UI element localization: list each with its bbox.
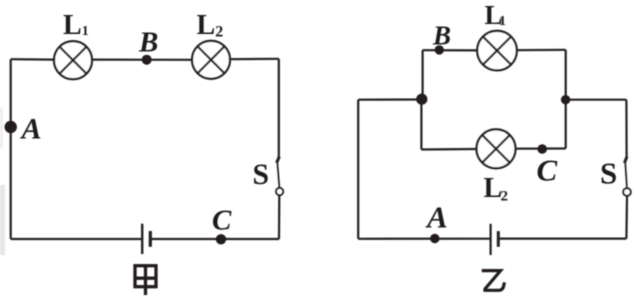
label 乙 (right circuit caption) — [482, 271, 505, 291]
battery (left circuit): short thick plate — [149, 231, 152, 247]
node B (left circuit) — [142, 55, 152, 65]
switch S (right circuit): lever — [625, 162, 627, 188]
wire left-circuit top segment L1 to L2 — [92, 58, 193, 60]
battery (left circuit): long plate — [141, 224, 143, 254]
wire right-circuit parallel left vertical upper — [422, 50, 424, 99]
wire right-circuit bottom branch left: corner to L2 — [421, 148, 477, 151]
switch S (left circuit): fixed contact tick — [277, 157, 280, 164]
svg-text:B: B — [138, 26, 158, 58]
switch S (right circuit): fixed contact tick — [624, 157, 627, 164]
wire left-circuit right vertical below switch — [278, 195, 280, 239]
wire left-circuit right vertical above switch — [278, 59, 280, 158]
wire right-circuit parallel right vertical upper — [565, 50, 567, 100]
lamp L1 (left circuit) — [54, 41, 92, 79]
wire right-circuit outer left vertical — [357, 100, 359, 239]
node C (left circuit) — [216, 234, 226, 244]
label 甲 (left circuit caption) — [135, 266, 156, 295]
svg-text:A: A — [20, 113, 42, 146]
node junction right (right circuit) — [561, 95, 570, 104]
node B (right circuit) — [435, 45, 444, 54]
svg-text:2: 2 — [215, 24, 223, 41]
node junction left (right circuit) — [416, 94, 427, 105]
wire right-circuit top branch right: L1 to corner — [517, 49, 566, 52]
lamp L1 (right circuit) — [477, 31, 517, 71]
svg-text:C: C — [537, 153, 558, 188]
node C (right circuit) — [537, 144, 547, 154]
svg-text:C: C — [212, 205, 232, 237]
svg-text:1: 1 — [82, 24, 89, 39]
wire right-circuit bottom branch right: L2 to corner — [516, 147, 566, 149]
svg-text:1: 1 — [499, 14, 506, 29]
svg-text:2: 2 — [501, 188, 509, 204]
wire left-circuit top segment A-corner to L1 — [11, 58, 55, 61]
switch S (left circuit): open contact circle — [276, 188, 283, 195]
battery (right circuit): short thick plate — [497, 231, 500, 247]
svg-text:S: S — [253, 158, 270, 191]
svg-text:A: A — [425, 200, 448, 235]
node A (right circuit) — [430, 234, 439, 243]
wire left-circuit bottom segment battery to left corner — [11, 238, 142, 240]
wire left-circuit top segment L2 to right corner — [230, 58, 279, 61]
wire right-circuit outer right vertical above switch — [625, 100, 627, 158]
wire right-circuit junction row left: outer corner to left junction — [358, 98, 422, 100]
svg-text:S: S — [600, 156, 617, 191]
svg-text:L: L — [197, 10, 216, 41]
wire right-circuit bottom: battery to left corner through A — [358, 238, 490, 240]
wire right-circuit outer right vertical below switch — [625, 196, 628, 238]
lamp L2 (right circuit) — [477, 129, 516, 168]
node A (left circuit) — [5, 121, 17, 133]
switch S (left circuit): lever — [277, 162, 279, 188]
wire right-circuit top branch left: corner to L1 — [423, 49, 478, 51]
lamp L2 (left circuit) — [192, 41, 230, 79]
wire right-circuit bottom: right corner to battery — [498, 238, 626, 240]
wire right-circuit parallel left vertical lower — [420, 100, 422, 150]
wire right-circuit junction row right: right junction to outer corner — [566, 99, 627, 101]
svg-text:B: B — [432, 21, 451, 51]
wire right-circuit parallel right vertical lower — [565, 100, 567, 149]
svg-text:L: L — [484, 173, 503, 204]
svg-text:L: L — [63, 10, 82, 41]
scan smudge left edge — [0, 185, 5, 255]
switch S (right circuit): open contact circle — [623, 188, 631, 196]
battery (right circuit): long plate — [490, 224, 492, 255]
wire left-circuit left vertical — [10, 59, 12, 239]
wire left-circuit bottom segment right corner to C to battery — [150, 238, 279, 240]
